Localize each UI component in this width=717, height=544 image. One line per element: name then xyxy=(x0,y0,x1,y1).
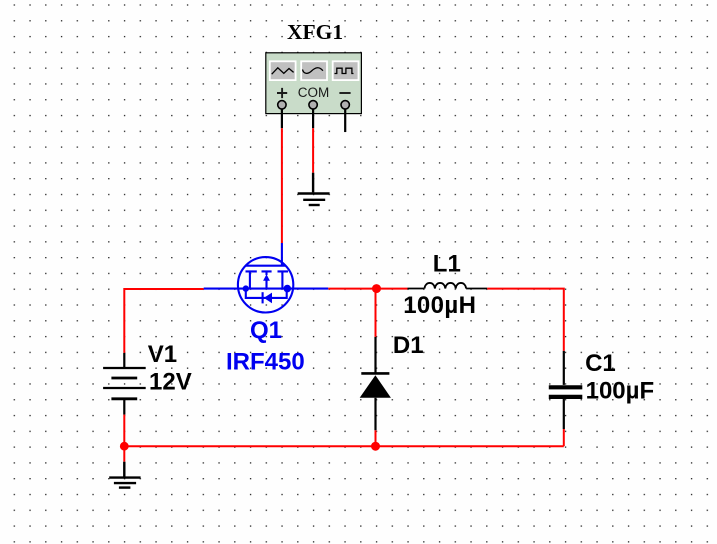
svg-text:100µF: 100µF xyxy=(586,377,655,404)
wire: bottom rail (red) xyxy=(124,445,564,447)
minus terminal label xyxy=(339,92,350,94)
svg-text:Q1: Q1 xyxy=(250,317,282,344)
wire: D1 anode to bottom rail (red) xyxy=(375,430,377,446)
square-wave icon xyxy=(335,68,354,73)
terminal COM xyxy=(309,101,317,109)
svg-text:D1: D1 xyxy=(393,332,424,359)
node C junction dot (V1 bottom) xyxy=(120,442,129,451)
node A junction dot xyxy=(372,284,381,293)
wire: COM terminal to ground (red) xyxy=(312,128,314,173)
svg-text:C1: C1 xyxy=(585,350,616,377)
wire: V1 minus down to bottom rail and ground (red) xyxy=(123,415,125,462)
Q1 drain dot xyxy=(284,285,292,293)
transistor Q1 (MOSFET) xyxy=(204,243,329,312)
inductor L1 xyxy=(408,283,488,289)
svg-text:12V: 12V xyxy=(149,368,192,395)
sine-wave icon xyxy=(303,68,323,74)
wire: node A down to D1 cathode (red) xyxy=(375,289,377,337)
Q1 substrate arrow xyxy=(263,274,270,281)
Q1 source dot xyxy=(243,285,249,291)
ground below V1 xyxy=(109,462,140,488)
wire: plus terminal to Q1 gate (red) xyxy=(281,128,283,243)
capacitor C1 xyxy=(549,351,583,429)
wire: XFG1 COM stub (black) xyxy=(312,105,314,128)
svg-text:COM: COM xyxy=(298,85,330,100)
plus terminal label xyxy=(277,88,287,98)
wire: C1 bottom to rail (red) xyxy=(563,429,565,446)
svg-text:L1: L1 xyxy=(433,250,461,277)
Q1 body diode triangle xyxy=(264,293,272,304)
wire: XFG1 minus stub (black, open) xyxy=(344,105,346,132)
wire: L1 to C1 top right corner (red) xyxy=(487,289,564,351)
diode D1 xyxy=(361,337,389,430)
triangle-wave icon xyxy=(272,68,294,74)
wire: XFG1 plus stub (black) xyxy=(281,105,283,128)
svg-text:100µH: 100µH xyxy=(403,292,476,319)
terminal minus xyxy=(341,101,349,109)
svg-text:XFG1: XFG1 xyxy=(287,20,343,44)
wire: Q1 source to node A (red) xyxy=(328,288,407,290)
battery V1 xyxy=(103,353,146,415)
function generator XFG1 body xyxy=(266,53,362,114)
node B junction dot (D1 bottom) xyxy=(371,442,380,451)
terminal plus xyxy=(278,101,286,109)
wire: V1 plus to Q1 drain, top-left corner (red) xyxy=(124,289,203,353)
svg-text:IRF450: IRF450 xyxy=(226,348,305,375)
svg-text:V1: V1 xyxy=(148,341,177,368)
ground below XFG1 COM xyxy=(298,173,330,205)
